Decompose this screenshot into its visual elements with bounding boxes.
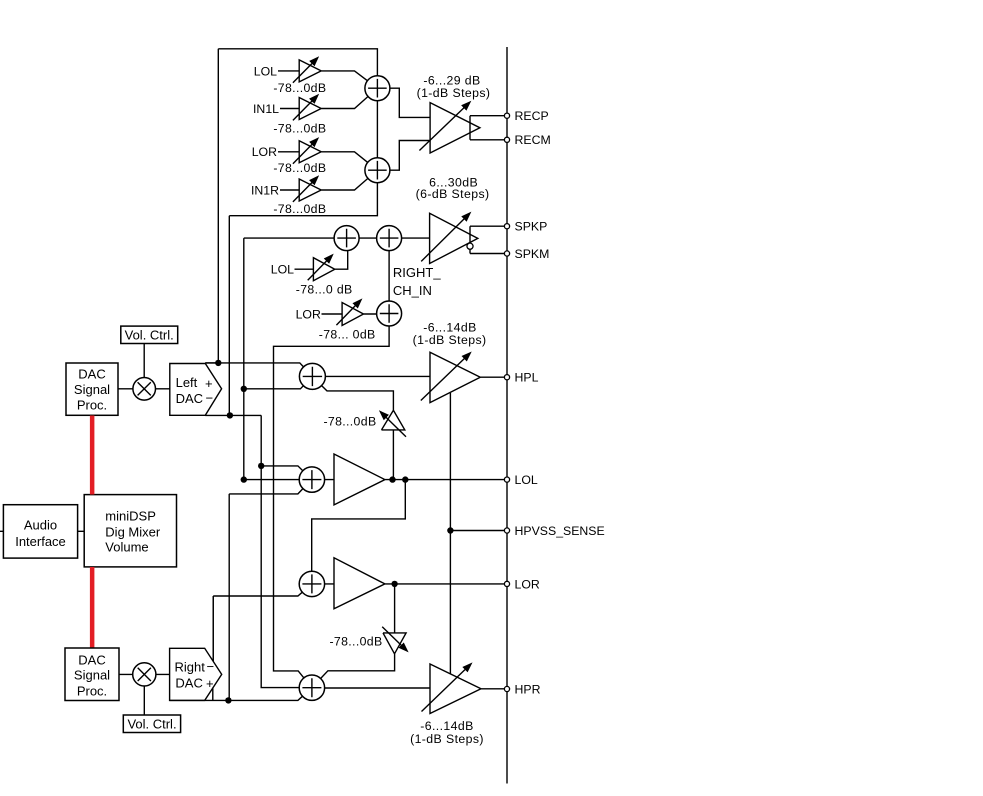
svg-text:-78...0dB: -78...0dB <box>323 415 376 429</box>
svg-text:SPKP: SPKP <box>515 220 548 234</box>
svg-text:HPL: HPL <box>515 371 539 385</box>
svg-text:Vol. Ctrl.: Vol. Ctrl. <box>125 327 174 342</box>
svg-text:Right: Right <box>175 660 206 675</box>
svg-text:−: − <box>207 659 215 674</box>
svg-text:-78...0 dB: -78...0 dB <box>296 283 353 297</box>
svg-text:Audio: Audio <box>24 517 57 532</box>
svg-text:-78... 0dB: -78... 0dB <box>319 327 376 341</box>
svg-text:LOL: LOL <box>515 473 538 487</box>
svg-text:IN1R: IN1R <box>251 183 279 197</box>
svg-text:DAC: DAC <box>78 367 105 382</box>
svg-text:HPR: HPR <box>515 682 541 696</box>
svg-text:Signal: Signal <box>74 668 110 683</box>
svg-text:Left: Left <box>176 375 198 390</box>
svg-text:−: − <box>206 391 214 406</box>
svg-text:IN1L: IN1L <box>253 102 279 116</box>
svg-text:miniDSP: miniDSP <box>105 509 156 524</box>
svg-text:HPVSS_SENSE: HPVSS_SENSE <box>515 524 605 538</box>
svg-text:-6...14dB: -6...14dB <box>420 719 474 733</box>
svg-text:RECM: RECM <box>515 133 551 147</box>
svg-text:-78...0dB: -78...0dB <box>273 81 326 95</box>
svg-text:+: + <box>205 376 213 391</box>
svg-text:Dig Mixer: Dig Mixer <box>105 524 161 539</box>
svg-text:Interface: Interface <box>15 534 66 549</box>
svg-text:LOL: LOL <box>271 263 294 277</box>
svg-text:DAC: DAC <box>176 391 203 406</box>
svg-text:Proc.: Proc. <box>77 683 107 698</box>
svg-text:+: + <box>206 676 214 691</box>
svg-text:CH_IN: CH_IN <box>393 283 432 298</box>
svg-text:-78...0dB: -78...0dB <box>329 635 382 649</box>
svg-text:DAC: DAC <box>175 675 202 690</box>
svg-text:Volume: Volume <box>105 540 148 555</box>
svg-text:RECP: RECP <box>515 109 549 123</box>
svg-text:LOL: LOL <box>254 64 277 78</box>
svg-text:(1-dB Steps): (1-dB Steps) <box>410 732 484 746</box>
svg-text:DAC: DAC <box>78 652 105 667</box>
svg-text:Proc.: Proc. <box>77 398 107 413</box>
svg-text:(1-dB Steps): (1-dB Steps) <box>413 333 487 347</box>
svg-text:-78...0dB: -78...0dB <box>273 202 326 216</box>
svg-text:SPKM: SPKM <box>515 247 550 261</box>
svg-text:Signal: Signal <box>74 382 110 397</box>
svg-text:LOR: LOR <box>515 577 540 591</box>
svg-text:(1-dB Steps): (1-dB Steps) <box>417 86 491 100</box>
svg-text:RIGHT_: RIGHT_ <box>393 265 441 280</box>
svg-text:-78...0dB: -78...0dB <box>273 161 326 175</box>
svg-text:Vol. Ctrl.: Vol. Ctrl. <box>127 716 176 731</box>
svg-text:LOR: LOR <box>296 307 321 321</box>
svg-text:-78...0dB: -78...0dB <box>273 122 326 136</box>
svg-text:(6-dB Steps): (6-dB Steps) <box>416 187 490 201</box>
svg-text:LOR: LOR <box>252 145 277 159</box>
